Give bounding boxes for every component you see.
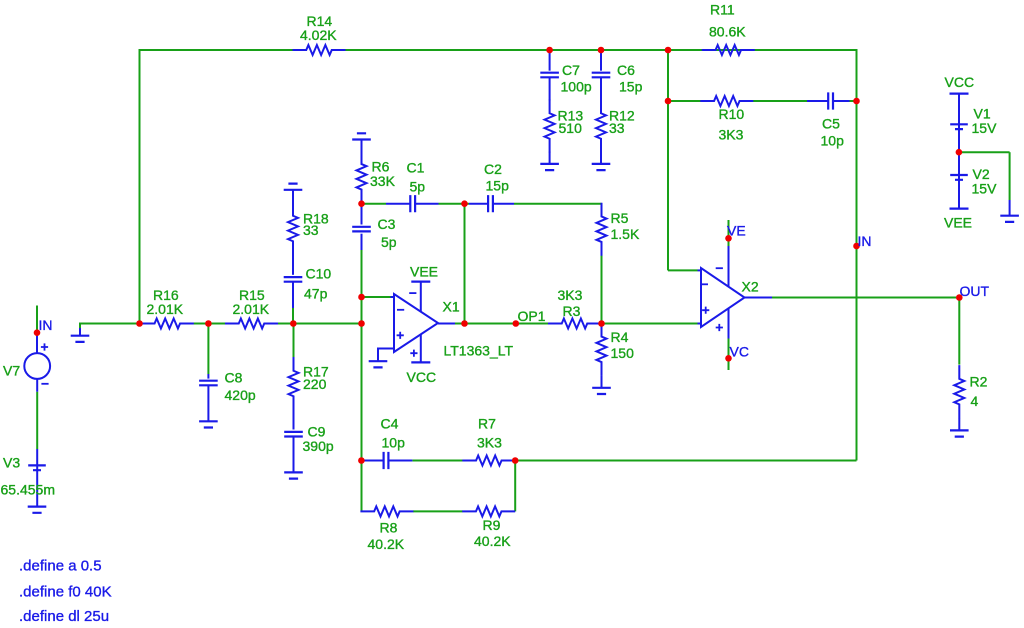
resistor R16	[141, 319, 194, 329]
svg-text:4.02K: 4.02K	[300, 27, 337, 43]
wire input rail ground stem	[79, 328, 81, 336]
svg-text:VCC: VCC	[945, 74, 975, 90]
wire C8 to ground lead	[207, 385, 209, 421]
resistor R14	[293, 45, 346, 55]
op-amp X2	[698, 246, 773, 339]
wire between R15 and node at x=361.5	[278, 323, 362, 325]
svg-text:10p: 10p	[821, 132, 845, 148]
svg-text:R2: R2	[970, 374, 988, 390]
ground below C9	[284, 472, 303, 478]
wire VC node stub	[728, 339, 730, 371]
svg-text:510: 510	[559, 120, 583, 136]
capacitor C3	[352, 227, 371, 232]
junction rail left	[136, 320, 143, 327]
svg-text:2.01K: 2.01K	[233, 301, 270, 317]
wire R3 node to X2 noninverting input	[602, 323, 698, 325]
wire input rail ground stub horizontal	[80, 323, 141, 325]
svg-text:C7: C7	[562, 62, 580, 78]
junction R10 row left	[665, 98, 672, 105]
capacitor C1	[410, 195, 415, 212]
resistor R8	[360, 506, 413, 516]
ground above R18	[284, 184, 303, 190]
svg-text:100p: 100p	[561, 79, 592, 95]
junction node OUT	[956, 294, 963, 301]
ground below R4	[592, 388, 611, 394]
wire VE node stub	[728, 220, 730, 246]
svg-text:VEE: VEE	[944, 214, 972, 230]
svg-text:1.5K: 1.5K	[611, 226, 640, 242]
svg-text:IN: IN	[39, 317, 53, 333]
battery V2	[950, 175, 968, 180]
wire R12 to ground lead	[600, 152, 602, 164]
svg-text:15V: 15V	[972, 180, 998, 196]
junction node VC	[725, 355, 732, 362]
ground below C8	[199, 421, 218, 427]
svg-text:OUT: OUT	[960, 283, 990, 299]
resistor R4	[597, 323, 607, 376]
wire C3 bottom lead	[361, 234, 363, 250]
wire R6 top lead	[361, 140, 363, 152]
resistor R15	[225, 319, 278, 329]
resistor R18	[288, 202, 298, 255]
wire vertical from C1-C2 junction to X1 output	[464, 204, 466, 324]
wire R10 to C5 segment	[753, 100, 807, 102]
svg-text:R5: R5	[611, 210, 629, 226]
wire between R16 and R15	[194, 323, 226, 325]
wire C4 to R7	[412, 460, 463, 462]
svg-text:VCC: VCC	[407, 369, 437, 385]
wire C10 top lead	[292, 254, 294, 275]
svg-text:5p: 5p	[381, 234, 397, 250]
svg-text:33K: 33K	[370, 173, 396, 189]
battery V1	[950, 124, 968, 129]
wire C7 to R13 lead	[549, 77, 551, 100]
wire V1-V2 midpoint ground vertical	[1009, 152, 1011, 200]
svg-text:C4: C4	[381, 416, 399, 432]
wire IN node stub above V7	[36, 306, 38, 335]
wire R13 to ground lead	[549, 152, 551, 164]
wire C1 left blue segment	[386, 203, 410, 205]
junction R3-R4 node	[598, 320, 605, 327]
ground at input rail	[71, 336, 90, 342]
svg-text:R8: R8	[380, 520, 398, 536]
svg-text:R4: R4	[611, 329, 629, 345]
capacitor C8	[199, 381, 218, 386]
wire C1 left lead wire	[362, 203, 387, 205]
svg-text:3K3: 3K3	[477, 435, 502, 451]
junction C1-C2 node	[461, 200, 468, 207]
svg-text:R7: R7	[478, 416, 496, 432]
wire V1-V2 midpoint to ground horizontal	[959, 151, 1010, 153]
ground below R2	[950, 430, 969, 436]
terminal bar VCC node	[950, 93, 969, 95]
svg-text:VC: VC	[730, 343, 749, 359]
wire X1 output to R3	[455, 323, 548, 325]
battery V3	[28, 465, 46, 470]
junction top rail feedback	[665, 47, 672, 54]
wire left vertical from top rail to input rail	[139, 49, 141, 324]
svg-text:R3: R3	[563, 303, 581, 319]
wire C10 bottom lead	[292, 282, 294, 308]
capacitor C6	[592, 73, 611, 78]
resistor R12	[596, 100, 606, 153]
svg-text:R10: R10	[719, 106, 745, 122]
resistor R7	[462, 456, 515, 466]
wire R2 to ground lead	[958, 418, 960, 430]
ground at X1 noninverting input	[369, 361, 388, 367]
svg-text:390p: 390p	[303, 438, 334, 454]
wire C2 left blue segment	[469, 203, 488, 205]
svg-text:R6: R6	[372, 158, 390, 174]
svg-text:40.2K: 40.2K	[368, 536, 405, 552]
svg-text:3K3: 3K3	[719, 127, 744, 143]
wire OUT down to R2	[958, 298, 960, 365]
svg-text:X1: X1	[443, 299, 460, 315]
resistor R3	[548, 319, 601, 329]
wire V7 top lead	[36, 334, 38, 353]
svg-text:15V: 15V	[972, 120, 998, 136]
wire top rail left segment	[140, 49, 293, 51]
junction node OP1	[513, 320, 520, 327]
terminal bar VEE node	[950, 208, 969, 210]
svg-text:65.455m: 65.455m	[1, 482, 55, 498]
wire R17 to C9 lead	[293, 410, 295, 430]
svg-text:47p: 47p	[304, 285, 328, 301]
svg-text:C5: C5	[822, 116, 840, 132]
svg-text:2.01K: 2.01K	[147, 301, 184, 317]
svg-text:V3: V3	[3, 455, 20, 471]
junction rail C8	[205, 320, 212, 327]
svg-text:.define dl 25u: .define dl 25u	[19, 608, 109, 625]
wire C9 to ground lead	[293, 437, 295, 473]
svg-text:IN: IN	[858, 233, 872, 249]
svg-text:C10: C10	[306, 265, 332, 281]
wire top rail right segment	[346, 49, 857, 51]
resistor R11	[702, 45, 755, 55]
junction rail main column	[358, 320, 365, 327]
wire C3 top lead	[361, 204, 363, 225]
wire C4 left lead	[361, 460, 383, 462]
svg-text:80.6K: 80.6K	[709, 24, 746, 40]
wire feedback vertical at x=668	[667, 50, 669, 270]
junction node IN right	[853, 243, 860, 250]
junction top rail C7	[546, 47, 553, 54]
ground below R13	[540, 164, 559, 170]
wire C10 column to rail	[292, 308, 294, 324]
wire C5 right segment	[850, 100, 857, 102]
svg-text:VEE: VEE	[410, 263, 438, 279]
wire bottom feedback row to right vertical	[515, 460, 856, 462]
svg-text:OP1: OP1	[518, 308, 546, 324]
svg-text:V7: V7	[3, 363, 20, 379]
wire C4 right lead	[388, 460, 412, 462]
svg-text:C6: C6	[617, 62, 635, 78]
wire C2 to R5 corner	[514, 203, 602, 205]
wire right ground stub	[1009, 200, 1011, 216]
ground right of V2	[1000, 216, 1019, 222]
resistor R10	[700, 96, 753, 106]
wire main vertical column below C3	[361, 250, 363, 461]
wire V7 bottom lead	[36, 379, 38, 392]
capacitor C2	[488, 195, 493, 212]
resistor R9	[462, 506, 515, 516]
svg-text:C3: C3	[378, 216, 396, 232]
svg-text:X2: X2	[742, 279, 759, 295]
source V7	[24, 343, 50, 383]
resistor R13	[545, 100, 555, 153]
wire input rail ground stub corner	[79, 323, 81, 329]
ground below R12	[592, 164, 611, 170]
wire V2 stem	[958, 152, 960, 208]
svg-text:150: 150	[611, 345, 635, 361]
capacitor C5	[828, 92, 833, 109]
junction rail C10-R17	[290, 320, 297, 327]
svg-text:15p: 15p	[486, 178, 510, 194]
capacitor C9	[284, 432, 303, 437]
wire C6 top lead	[600, 51, 602, 71]
wire X2 output to OUT	[772, 297, 959, 299]
junction X1 inverting input	[358, 294, 365, 301]
wire C5 left lead	[807, 100, 828, 102]
junction C4 row left	[358, 457, 365, 464]
svg-text:40.2K: 40.2K	[474, 533, 511, 549]
wire C1 right blue segment	[415, 203, 439, 205]
junction C4 row right	[512, 457, 519, 464]
ground above R6	[352, 133, 371, 139]
wire R18 top lead	[292, 190, 294, 204]
svg-text:33: 33	[609, 120, 625, 136]
wire C5 right lead	[833, 100, 850, 102]
wire V1 stem	[958, 94, 960, 153]
svg-text:.define f0 40K: .define f0 40K	[19, 584, 112, 601]
junction C5 right	[853, 98, 860, 105]
capacitor C10	[284, 277, 303, 282]
svg-text:C1: C1	[407, 159, 425, 175]
wire between R8 and R9	[413, 510, 463, 512]
svg-text:C2: C2	[484, 161, 502, 177]
svg-text:R9: R9	[483, 517, 501, 533]
wire V3 stem	[36, 449, 38, 507]
wire R4 to ground lead	[601, 376, 603, 388]
svg-text:15p: 15p	[619, 79, 643, 95]
svg-text:C8: C8	[225, 370, 243, 386]
resistor R2	[954, 365, 964, 418]
resistor R17	[289, 357, 299, 410]
svg-text:VE: VE	[727, 223, 746, 239]
wire right vertical from top rail down to bottom feedback row	[856, 49, 858, 461]
ground below V3	[28, 507, 47, 513]
wire rail to C8	[207, 324, 209, 375]
svg-text:5p: 5p	[410, 178, 426, 194]
wire C1 to C2 junction	[439, 203, 470, 205]
svg-text:3K3: 3K3	[558, 287, 583, 303]
wire feedback horizontal into X2 inverting input	[668, 269, 698, 271]
svg-text:4: 4	[971, 393, 979, 409]
wire R9 corner up to C4 row	[514, 461, 516, 512]
resistor R6	[357, 150, 367, 203]
wire C2 right blue segment	[493, 203, 514, 205]
svg-text:LT1363_LT: LT1363_LT	[444, 343, 514, 359]
wire V7 to V3	[36, 392, 38, 449]
svg-text:R11: R11	[710, 2, 735, 18]
capacitor C7	[540, 73, 559, 78]
svg-text:.define a 0.5: .define a 0.5	[19, 558, 102, 575]
resistor R5	[597, 203, 607, 256]
junction V1-V2 midpoint	[956, 149, 963, 156]
junction X1 output	[461, 320, 468, 327]
junction top rail C6	[598, 47, 605, 54]
wire C1 left blue lead	[385, 203, 387, 205]
svg-text:33: 33	[303, 222, 319, 238]
wire C7 top lead	[549, 51, 551, 71]
junction node IN left	[34, 329, 41, 336]
wire rail to R17	[293, 324, 295, 358]
wire R10 row left segment	[668, 100, 701, 102]
wire R5 bottom to rail	[601, 256, 603, 324]
svg-text:220: 220	[303, 376, 327, 392]
wire main vertical column to R8 row	[361, 461, 363, 512]
junction C1-R6-C3 node	[358, 200, 365, 207]
wire C6 to R12 lead	[600, 77, 602, 100]
svg-text:420p: 420p	[225, 387, 256, 403]
junction node VE	[725, 235, 732, 242]
svg-text:10p: 10p	[382, 435, 406, 451]
capacitor C4	[384, 452, 389, 469]
op-amp X1	[378, 282, 455, 363]
wire X1 inverting input	[362, 296, 391, 298]
wire C8 top lead	[207, 374, 209, 379]
